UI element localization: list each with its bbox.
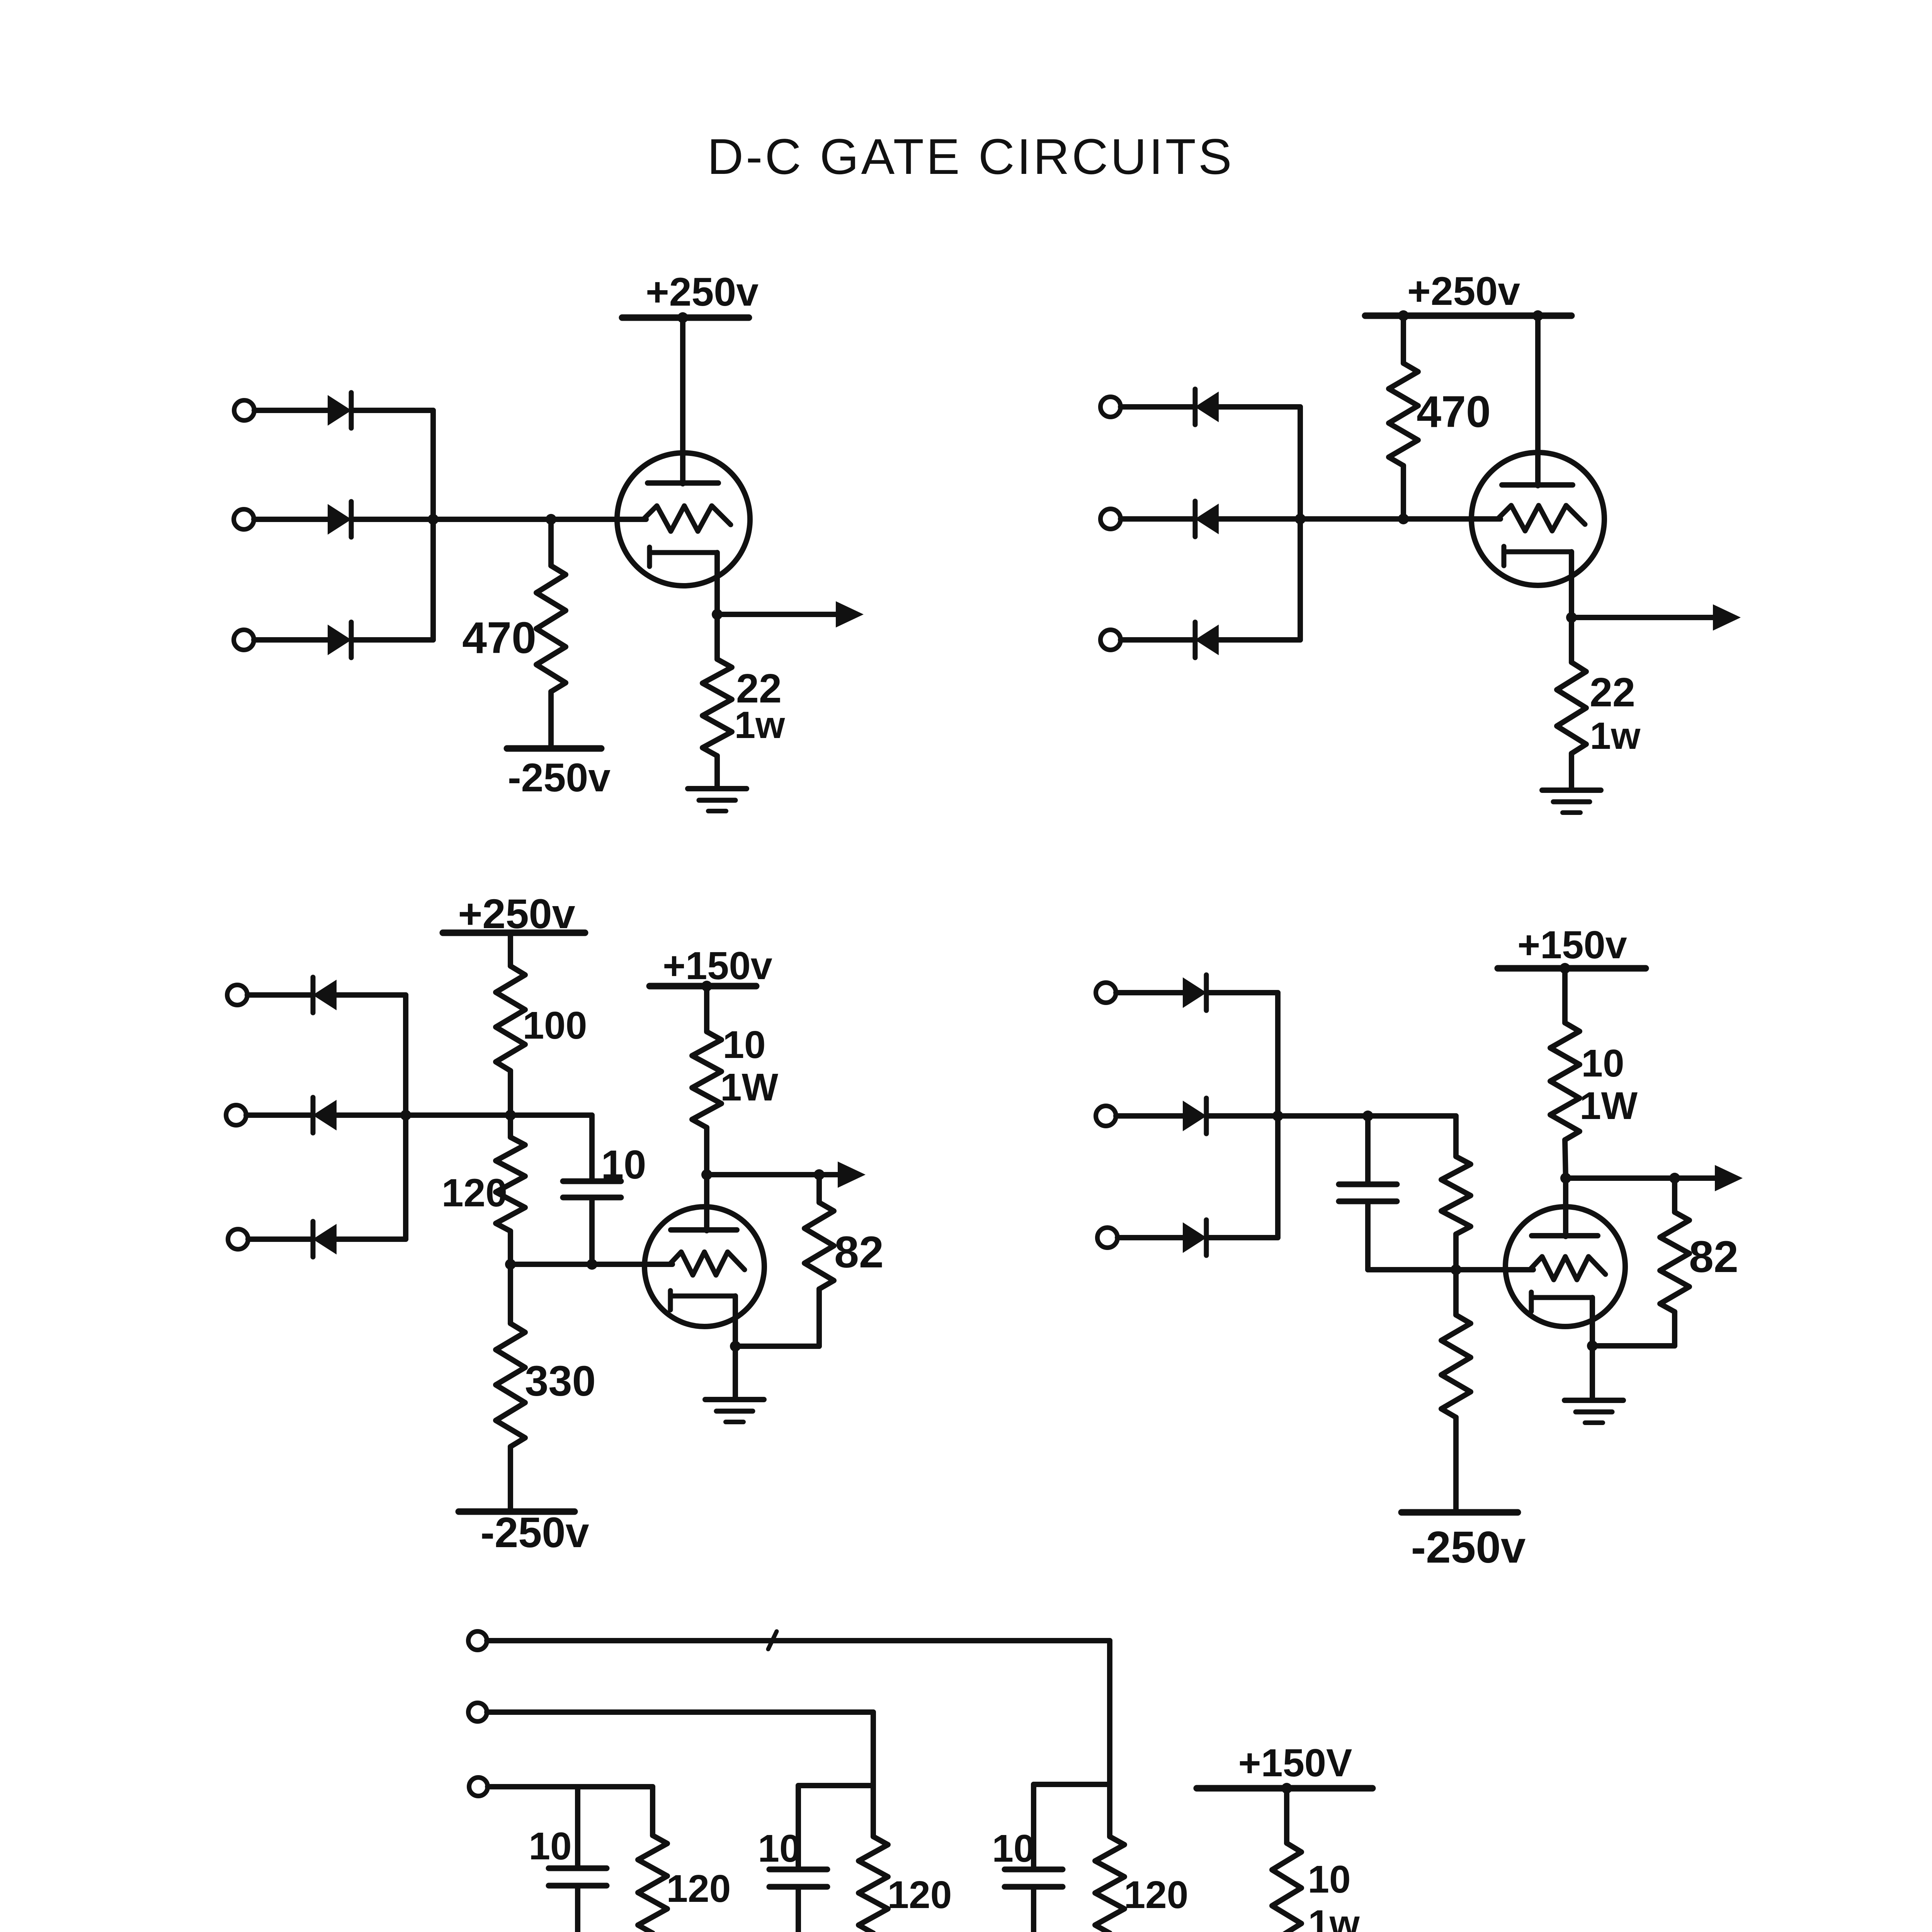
junction divider/middle wire (circuit 3) — [505, 1110, 516, 1121]
wire input3 to RC-A (circuit 5) — [488, 1784, 578, 1789]
label -250v (circuit 3) — [480, 1509, 589, 1556]
label 470 (circuit 1) — [462, 613, 536, 663]
wire diode1 to bus (circuit 3) — [336, 992, 406, 998]
wire input2 to diode (circuit 1) — [254, 517, 328, 522]
wire grid (circuit 4) — [1368, 1267, 1533, 1272]
resistor 120 A (circuit 5) — [638, 1787, 667, 1932]
junction 82 top (circuit 4) — [1669, 1173, 1680, 1184]
svg-text:+250v: +250v — [646, 270, 759, 315]
tube plate (circuit 1) — [648, 480, 718, 486]
input terminal 1 (circuit 1) — [234, 400, 254, 420]
resistor 10 1W (circuit 4) — [1550, 968, 1580, 1178]
label 10 cap (circuit 3) — [601, 1142, 646, 1187]
resistor 82 (circuit 3) — [804, 1175, 834, 1346]
ground (circuit 4) — [1565, 1400, 1623, 1423]
output arrow (circuit 3) — [707, 1162, 866, 1188]
tube grid (circuit 2) — [1498, 505, 1585, 531]
tube plate (circuit 3) — [671, 1227, 737, 1233]
wire input1 to diode (circuit 3) — [247, 992, 312, 998]
diode input 1 (circuit 2) — [1195, 389, 1218, 425]
tube grid (circuit 1) — [643, 506, 731, 531]
junction 10-1W on rail (circuit 5) — [1281, 1783, 1292, 1794]
resistor 120 (circuit 3) — [496, 1115, 525, 1264]
label +250v (circuit 3) — [458, 890, 575, 937]
input terminal 2 (circuit 3) — [226, 1105, 246, 1125]
label 10 B (circuit 5) — [758, 1827, 801, 1870]
-250v rail bar (circuit 1) — [507, 745, 601, 752]
wire diode3 to bus (circuit 2) — [1218, 637, 1300, 643]
diode input 3 (circuit 1) — [328, 622, 351, 658]
label 120 (circuit 3) — [442, 1171, 507, 1215]
title: D-C GATE CIRCUITS — [707, 128, 1234, 185]
svg-text:1W: 1W — [1580, 1084, 1638, 1128]
junction 470 on rail (circuit 2) — [1398, 310, 1409, 321]
label 10 (circuit 4) — [1581, 1042, 1624, 1085]
svg-text:+150V: +150V — [1238, 1742, 1352, 1785]
label 82 (circuit 3) — [834, 1228, 884, 1277]
label 470 (circuit 2) — [1417, 387, 1491, 437]
diode bus vertical wire (circuit 1) — [430, 410, 436, 640]
tube envelope (circuit 1) — [617, 453, 750, 586]
wire input1 to diode (circuit 2) — [1121, 404, 1194, 410]
resistor 330 (circuit 3) — [496, 1264, 525, 1512]
svg-text:1W: 1W — [720, 1066, 779, 1109]
tube plate (circuit 2) — [1502, 482, 1573, 488]
output node (circuit 4) — [1560, 1173, 1571, 1184]
svg-text:+250v: +250v — [458, 890, 575, 937]
svg-text:22: 22 — [1590, 670, 1635, 715]
label 1w (circuit 1) — [735, 704, 786, 746]
RC-B top rail (circuit 5) — [798, 1783, 873, 1788]
svg-text:+150v: +150v — [1517, 923, 1627, 967]
+250v rail bar (circuit 2) — [1365, 313, 1571, 319]
capacitor 10 B (circuit 5) — [769, 1786, 827, 1932]
svg-text:100: 100 — [523, 1004, 587, 1047]
resistor 22 1W (circuit 1) — [702, 614, 732, 787]
tube envelope (circuit 3) — [645, 1207, 764, 1327]
ground (circuit 1) — [688, 789, 747, 811]
output arrow (circuit 1) — [717, 601, 864, 628]
wire input2 to diode (circuit 2) — [1121, 516, 1194, 522]
label 330 (circuit 3) — [525, 1357, 596, 1405]
wire +250v to tube plate (circuit 1) — [680, 318, 685, 484]
input terminal 3 (circuit 5) — [469, 1777, 488, 1796]
resistor 10 1W (circuit 3) — [692, 986, 721, 1175]
wire cathode to output node (circuit 2) — [1569, 552, 1574, 617]
svg-text:1w: 1w — [1308, 1902, 1360, 1932]
svg-text:120: 120 — [442, 1171, 507, 1215]
+250v rail bar (circuit 1) — [622, 315, 749, 321]
svg-text:+250v: +250v — [1407, 269, 1520, 314]
wire diode2 to bus (circuit 4) — [1207, 1113, 1278, 1119]
diode input 2 (circuit 1) — [328, 502, 351, 537]
junction 10-1W on rail (circuit 4) — [1560, 963, 1570, 974]
wire cathode to node (circuit 4) — [1590, 1298, 1595, 1346]
svg-text:10: 10 — [723, 1023, 765, 1066]
wire diode1 to bus (circuit 1) — [352, 408, 433, 413]
node grid/470 junction (circuit 1) — [546, 514, 556, 525]
junction cap top (circuit 4) — [1362, 1111, 1373, 1121]
label 1W (circuit 3) — [720, 1066, 779, 1109]
resistor 10 1W (circuit 5) — [1272, 1788, 1301, 1932]
cathode node (circuit 3) — [730, 1341, 741, 1352]
resistor 22 1W (circuit 2) — [1557, 617, 1586, 788]
diode input 3 (circuit 4) — [1184, 1220, 1206, 1255]
svg-text:1w: 1w — [735, 704, 786, 746]
resistor 82 (circuit 4) — [1660, 1178, 1689, 1346]
label +150v (circuit 4) — [1517, 923, 1627, 967]
wire input1 to diode (circuit 4) — [1116, 990, 1184, 995]
wire input2 to column B (circuit 5) — [487, 1712, 873, 1786]
tube plate (circuit 4) — [1532, 1233, 1598, 1238]
label 1w (circuit 2) — [1590, 714, 1641, 757]
diode input 2 (circuit 2) — [1195, 501, 1218, 537]
svg-text:10: 10 — [1308, 1858, 1350, 1901]
wire diode2 to bus (circuit 1) — [352, 517, 433, 522]
tube cathode (circuit 2) — [1504, 546, 1571, 566]
junction 10-1W on rail (circuit 3) — [701, 981, 712, 992]
input terminal 2 (circuit 5) — [468, 1703, 487, 1721]
input terminal 2 (circuit 1) — [234, 509, 254, 529]
wire +250v to tube plate (circuit 2) — [1535, 316, 1541, 486]
output arrow (circuit 2) — [1571, 604, 1741, 631]
output node (circuit 3) — [701, 1169, 712, 1180]
input terminal 1 (circuit 4) — [1096, 983, 1116, 1003]
label 10 C (circuit 5) — [992, 1827, 1035, 1870]
junction bus/middle (circuit 4) — [1272, 1111, 1283, 1121]
wire plate lead (circuit 4) — [1563, 1178, 1568, 1236]
wire bus to cap corner (circuit 3) — [406, 1112, 592, 1118]
output node (circuit 1) — [712, 609, 723, 620]
label -250v (circuit 1) — [508, 755, 611, 800]
diode input 3 (circuit 2) — [1195, 622, 1218, 658]
wire cathode node to ground (circuit 3) — [733, 1346, 738, 1399]
input terminal 3 (circuit 3) — [228, 1229, 248, 1249]
label 10 (circuit 3) — [723, 1023, 765, 1066]
tube cathode (circuit 1) — [650, 547, 717, 566]
input terminal 3 (circuit 1) — [234, 630, 254, 650]
label 10 A (circuit 5) — [529, 1825, 571, 1868]
junction 82 top (circuit 3) — [814, 1169, 825, 1180]
label 120 B (circuit 5) — [888, 1873, 952, 1917]
diode input 2 (circuit 4) — [1184, 1098, 1206, 1134]
wire cathode to node (circuit 3) — [733, 1296, 738, 1346]
wire input3 to diode (circuit 1) — [254, 637, 328, 643]
svg-text:10: 10 — [601, 1142, 646, 1187]
wire input2 to diode (circuit 3) — [246, 1112, 312, 1118]
tube envelope (circuit 2) — [1471, 452, 1604, 585]
wire plate lead (circuit 3) — [704, 1175, 709, 1231]
resistor 470 (circuit 1) — [536, 519, 566, 748]
ground (circuit 2) — [1542, 790, 1601, 813]
label 1w (circuit 5) — [1308, 1902, 1360, 1932]
label +250v (circuit 2) — [1407, 269, 1520, 314]
resistor 100 (circuit 3) — [496, 933, 525, 1115]
wire grid (circuit 3) — [510, 1262, 672, 1267]
input terminal 1 (circuit 5) — [468, 1631, 487, 1650]
capacitor 10 (circuit 3) — [563, 1115, 621, 1264]
junction bus/middle wire (circuit 3) — [400, 1110, 411, 1121]
label 1W (circuit 4) — [1580, 1084, 1638, 1128]
svg-text:10: 10 — [758, 1827, 801, 1870]
label 100 (circuit 3) — [523, 1004, 587, 1047]
svg-text:470: 470 — [462, 613, 536, 663]
svg-text:D-C GATE CIRCUITS: D-C GATE CIRCUITS — [707, 128, 1234, 185]
diode bus vertical wire (circuit 3) — [403, 995, 408, 1239]
ground (circuit 3) — [705, 1400, 764, 1422]
junction plate lead on +250v rail (circuit 1) — [677, 312, 688, 323]
capacitor 10 C (circuit 5) — [1005, 1784, 1063, 1932]
capacitor 10 A (circuit 5) — [549, 1787, 607, 1932]
svg-text:-250v: -250v — [1411, 1522, 1526, 1572]
wire input1 to column C (circuit 5) — [487, 1641, 1110, 1784]
wire diode3 to bus (circuit 3) — [336, 1236, 406, 1242]
label 120 A (circuit 5) — [667, 1867, 731, 1910]
label 82 (circuit 4) — [1689, 1232, 1738, 1282]
tube grid (circuit 4) — [1531, 1257, 1605, 1280]
junction plate lead on rail (circuit 2) — [1532, 310, 1543, 321]
wire diode2 to bus (circuit 3) — [336, 1112, 406, 1118]
label +150v (circuit 3) — [663, 944, 772, 988]
svg-text:120: 120 — [1124, 1873, 1189, 1917]
svg-text:120: 120 — [667, 1867, 731, 1910]
diode input 1 (circuit 4) — [1184, 975, 1206, 1010]
junction divider/grid (circuit 3) — [505, 1259, 516, 1270]
diode bus vertical wire (circuit 4) — [1275, 993, 1281, 1238]
tube cathode (circuit 4) — [1531, 1292, 1592, 1311]
input terminal 3 (circuit 2) — [1100, 630, 1121, 650]
wire cathode node to 82 (circuit 3) — [735, 1344, 819, 1349]
svg-text:470: 470 — [1417, 387, 1491, 437]
wire bus to tube grid (circuit 1) — [433, 517, 646, 522]
label 22 (circuit 2) — [1590, 670, 1635, 715]
wire bus to 120 corner (circuit 4) — [1278, 1113, 1456, 1119]
-250v rail bar (circuit 4) — [1401, 1509, 1518, 1516]
label 10 (circuit 5) — [1308, 1858, 1350, 1901]
resistor 330 (circuit 4) — [1441, 1270, 1471, 1512]
diode bus vertical wire (circuit 2) — [1298, 407, 1303, 640]
wire diode3 to bus (circuit 1) — [352, 637, 433, 643]
diode input 3 (circuit 3) — [313, 1221, 336, 1257]
svg-text:120: 120 — [888, 1873, 952, 1917]
diode input 2 (circuit 3) — [313, 1097, 336, 1133]
junction 120/grid (circuit 4) — [1451, 1264, 1461, 1275]
diode input 1 (circuit 1) — [328, 393, 351, 428]
wire input1 to diode (circuit 1) — [254, 408, 328, 413]
-250v rail bar (circuit 3) — [459, 1509, 575, 1515]
output node (circuit 2) — [1566, 612, 1577, 623]
junction grid/470 (circuit 2) — [1398, 514, 1409, 524]
output arrow (circuit 4) — [1566, 1165, 1743, 1191]
+250v rail bar (circuit 3) — [443, 930, 585, 936]
cathode node (circuit 4) — [1587, 1340, 1598, 1351]
wire cathode to output node (circuit 1) — [714, 553, 720, 614]
svg-text:82: 82 — [834, 1228, 884, 1277]
wire bus to tube grid (circuit 2) — [1300, 516, 1500, 522]
label -250v (circuit 4) — [1411, 1522, 1526, 1572]
label +150V (circuit 5) — [1238, 1742, 1352, 1785]
label +250v (circuit 1) — [646, 270, 759, 315]
svg-text:10: 10 — [1581, 1042, 1624, 1085]
label 120 C (circuit 5) — [1124, 1873, 1189, 1917]
resistor 470 (circuit 2) — [1389, 316, 1418, 519]
svg-text:10: 10 — [529, 1825, 571, 1868]
wire diode1 to bus (circuit 4) — [1207, 990, 1278, 995]
svg-text:10: 10 — [992, 1827, 1035, 1870]
crossover tick on input1 wire (circuit 5) — [768, 1631, 777, 1649]
wire input3 to diode (circuit 2) — [1121, 637, 1194, 643]
wire cathode node to 82 (circuit 4) — [1592, 1343, 1675, 1349]
junction bus/grid wire (circuit 1) — [428, 514, 439, 525]
wire diode1 to bus (circuit 2) — [1218, 404, 1300, 410]
+150v rail bar (circuit 4) — [1498, 965, 1646, 972]
+150v rail bar (circuit 3) — [650, 983, 756, 990]
wire input3 to diode (circuit 3) — [248, 1236, 312, 1242]
svg-text:1w: 1w — [1590, 714, 1641, 757]
svg-text:+150v: +150v — [663, 944, 772, 988]
input terminal 2 (circuit 4) — [1096, 1106, 1116, 1126]
resistor 120 B (circuit 5) — [859, 1786, 888, 1932]
wire input3 to diode (circuit 4) — [1117, 1235, 1184, 1240]
wire diode3 to bus (circuit 4) — [1207, 1235, 1278, 1240]
svg-text:-250v: -250v — [508, 755, 611, 800]
tube envelope (circuit 4) — [1505, 1207, 1625, 1327]
junction cap/grid (circuit 3) — [587, 1259, 597, 1270]
wire cathode node to ground (circuit 4) — [1590, 1346, 1595, 1400]
+150v rail bar (circuit 5) — [1197, 1785, 1372, 1792]
svg-text:330: 330 — [525, 1357, 596, 1405]
input terminal 1 (circuit 3) — [227, 985, 247, 1005]
tube cathode (circuit 3) — [670, 1291, 735, 1310]
tube grid (circuit 3) — [670, 1252, 745, 1275]
wire diode2 to bus (circuit 2) — [1218, 516, 1300, 522]
svg-text:-250v: -250v — [480, 1509, 589, 1556]
junction bus/grid wire (circuit 2) — [1295, 514, 1306, 524]
RC-A top rail (circuit 5) — [578, 1784, 653, 1789]
input terminal 1 (circuit 2) — [1100, 397, 1121, 417]
resistor 120 (circuit 4) — [1441, 1116, 1471, 1270]
diode input 1 (circuit 3) — [313, 977, 336, 1013]
input terminal 2 (circuit 2) — [1100, 509, 1121, 529]
capacitor (circuit 4) — [1339, 1116, 1397, 1270]
RC-C top rail (circuit 5) — [1034, 1782, 1110, 1787]
input terminal 3 (circuit 4) — [1097, 1228, 1117, 1248]
label 22 (circuit 1) — [736, 666, 782, 711]
svg-text:82: 82 — [1689, 1232, 1738, 1282]
resistor 120 C (circuit 5) — [1095, 1784, 1124, 1932]
wire input2 to diode (circuit 4) — [1116, 1113, 1184, 1119]
